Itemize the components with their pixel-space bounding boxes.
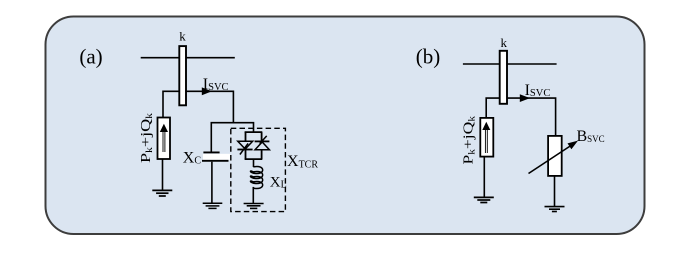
svg-text:Pk+jQk: Pk+jQk [462, 115, 477, 164]
capacitor X_C [203, 151, 219, 153]
thyristor block frame [245, 132, 263, 159]
svg-text:(b): (b) [416, 45, 441, 69]
wire load to ground (b) [483, 157, 485, 198]
wire: (b) top busbar line [463, 63, 557, 65]
wire load to ground (a) [162, 159, 164, 190]
svg-text:Pk+jQk: Pk+jQk [139, 112, 154, 163]
wire junction bar (a) [211, 123, 253, 153]
ground (B_SVC) [545, 207, 565, 212]
svg-text:k: k [501, 35, 508, 50]
ground (TCR) [244, 204, 264, 209]
arrow I_SVC (a) [202, 87, 212, 95]
panel background [46, 17, 645, 235]
ground (a capacitor) [203, 203, 223, 208]
bus k (a) [179, 46, 186, 105]
wire: (a) top busbar line [141, 57, 235, 59]
dashed box TCR [231, 128, 286, 211]
load P_k+jQ_k (b) [480, 118, 493, 157]
susceptance B_SVC box [548, 136, 562, 176]
svg-text:k: k [179, 29, 186, 44]
variable arrow through box [529, 146, 572, 174]
thyristor T2 (right, pointing up) [255, 140, 270, 142]
wire: (b) lower wire [486, 98, 555, 136]
load arrow (a) [162, 132, 164, 153]
wire box to ground (b) [554, 176, 556, 207]
ground (a load) [152, 190, 172, 196]
wire inductor to ground [252, 187, 254, 204]
wire thyristor block to inductor [253, 159, 255, 167]
ground (b load) [474, 197, 494, 202]
arrow I_SVC (b) [520, 94, 530, 102]
svg-text:(a): (a) [79, 45, 102, 69]
wire capacitor to ground [211, 162, 213, 204]
wire: (a) lower wire from load branch through bus to SVC branch [163, 91, 233, 122]
bus k (b) [500, 51, 507, 104]
inductor X_L [250, 166, 262, 188]
thyristor T1 (left, pointing down) [238, 141, 253, 149]
load P_k+jQ_k (a) [158, 118, 171, 160]
load arrow (b) [484, 130, 486, 154]
